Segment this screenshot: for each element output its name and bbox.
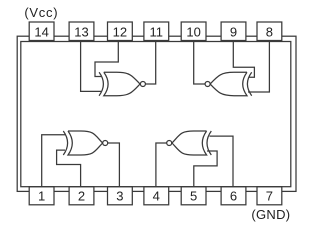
pin 13 (top): [69, 22, 94, 41]
pin 1 (bottom): [29, 187, 54, 205]
IC body U1: [21, 42, 291, 187]
wire pin 13 → gate A lower input: [81, 42, 101, 92]
svg-text:(GND): (GND): [251, 207, 290, 222]
svg-text:10: 10: [186, 24, 200, 39]
wire gate C output → pin 3: [108, 143, 120, 187]
svg-text:5: 5: [190, 189, 197, 204]
wire pin 2 → gate C lower input (jog): [57, 150, 81, 187]
XNOR gate C (pins 1,2 → 3) body: [68, 131, 103, 155]
wire gate D output → pin 4: [156, 143, 167, 187]
pin 9 (top): [221, 22, 246, 41]
XNOR gate A (pins 12,13 → 11) XOR input arc: [99, 72, 103, 95]
svg-text:(Vcc): (Vcc): [24, 5, 58, 20]
pin 11 (top): [144, 22, 169, 41]
wire gate B output → pin 10: [194, 42, 205, 85]
svg-text:3: 3: [116, 189, 123, 204]
svg-text:13: 13: [74, 24, 88, 39]
gate A output bubble: [140, 82, 145, 87]
wire pin 12 → gate A upper input: [95, 42, 118, 77]
svg-text:2: 2: [78, 189, 85, 204]
svg-text:11: 11: [150, 24, 164, 39]
gate D output bubble: [167, 141, 172, 146]
svg-text:9: 9: [230, 24, 237, 39]
XNOR gate D (pins 5,6 → 4) body: [172, 131, 207, 155]
XNOR gate B (pins 8,9 → 10) body: [210, 72, 247, 95]
pin 7 (bottom): [257, 187, 282, 205]
pin 2 (bottom): [69, 187, 94, 205]
svg-text:4: 4: [153, 189, 160, 204]
pin 6 (bottom): [221, 187, 246, 205]
wire gate A output → pin 11: [145, 42, 155, 85]
gate C output bubble: [103, 141, 108, 146]
pin 5 (bottom): [181, 187, 206, 205]
wire pin 1 → gate C upper input: [42, 135, 66, 187]
pin 12 (top): [108, 22, 133, 41]
pin 4 (bottom): [144, 187, 169, 205]
svg-text:12: 12: [113, 24, 127, 39]
pin 10 (top): [181, 22, 206, 41]
svg-text:7: 7: [266, 189, 273, 204]
wire pin 5 → gate D lower input (jog): [194, 151, 217, 187]
wire pin 9 → gate B upper input: [233, 42, 254, 78]
XNOR gate B (pins 8,9 → 10) XOR input arc: [247, 72, 251, 95]
XNOR gate C (pins 1,2 → 3) XOR input arc: [63, 131, 67, 155]
pin 14 (top): [29, 22, 54, 41]
wire pin 8 → gate B lower input: [248, 42, 269, 93]
XNOR gate D (pins 5,6 → 4) XOR input arc: [207, 131, 211, 155]
svg-text:1: 1: [38, 189, 45, 204]
wire: outer loop pin14–pin1 / pin8–pin7 (rim rectangle, hidden behind pin boxes): [17, 36, 296, 191]
XNOR gate A (pins 12,13 → 11) body: [104, 72, 140, 95]
pin 3 (bottom): [108, 187, 133, 205]
svg-text:8: 8: [266, 24, 273, 39]
gate B output bubble: [205, 82, 210, 87]
wire pin 6 → gate D upper input: [210, 136, 234, 187]
pin 8 (top): [257, 22, 282, 41]
svg-text:6: 6: [230, 189, 237, 204]
svg-text:14: 14: [34, 24, 48, 39]
